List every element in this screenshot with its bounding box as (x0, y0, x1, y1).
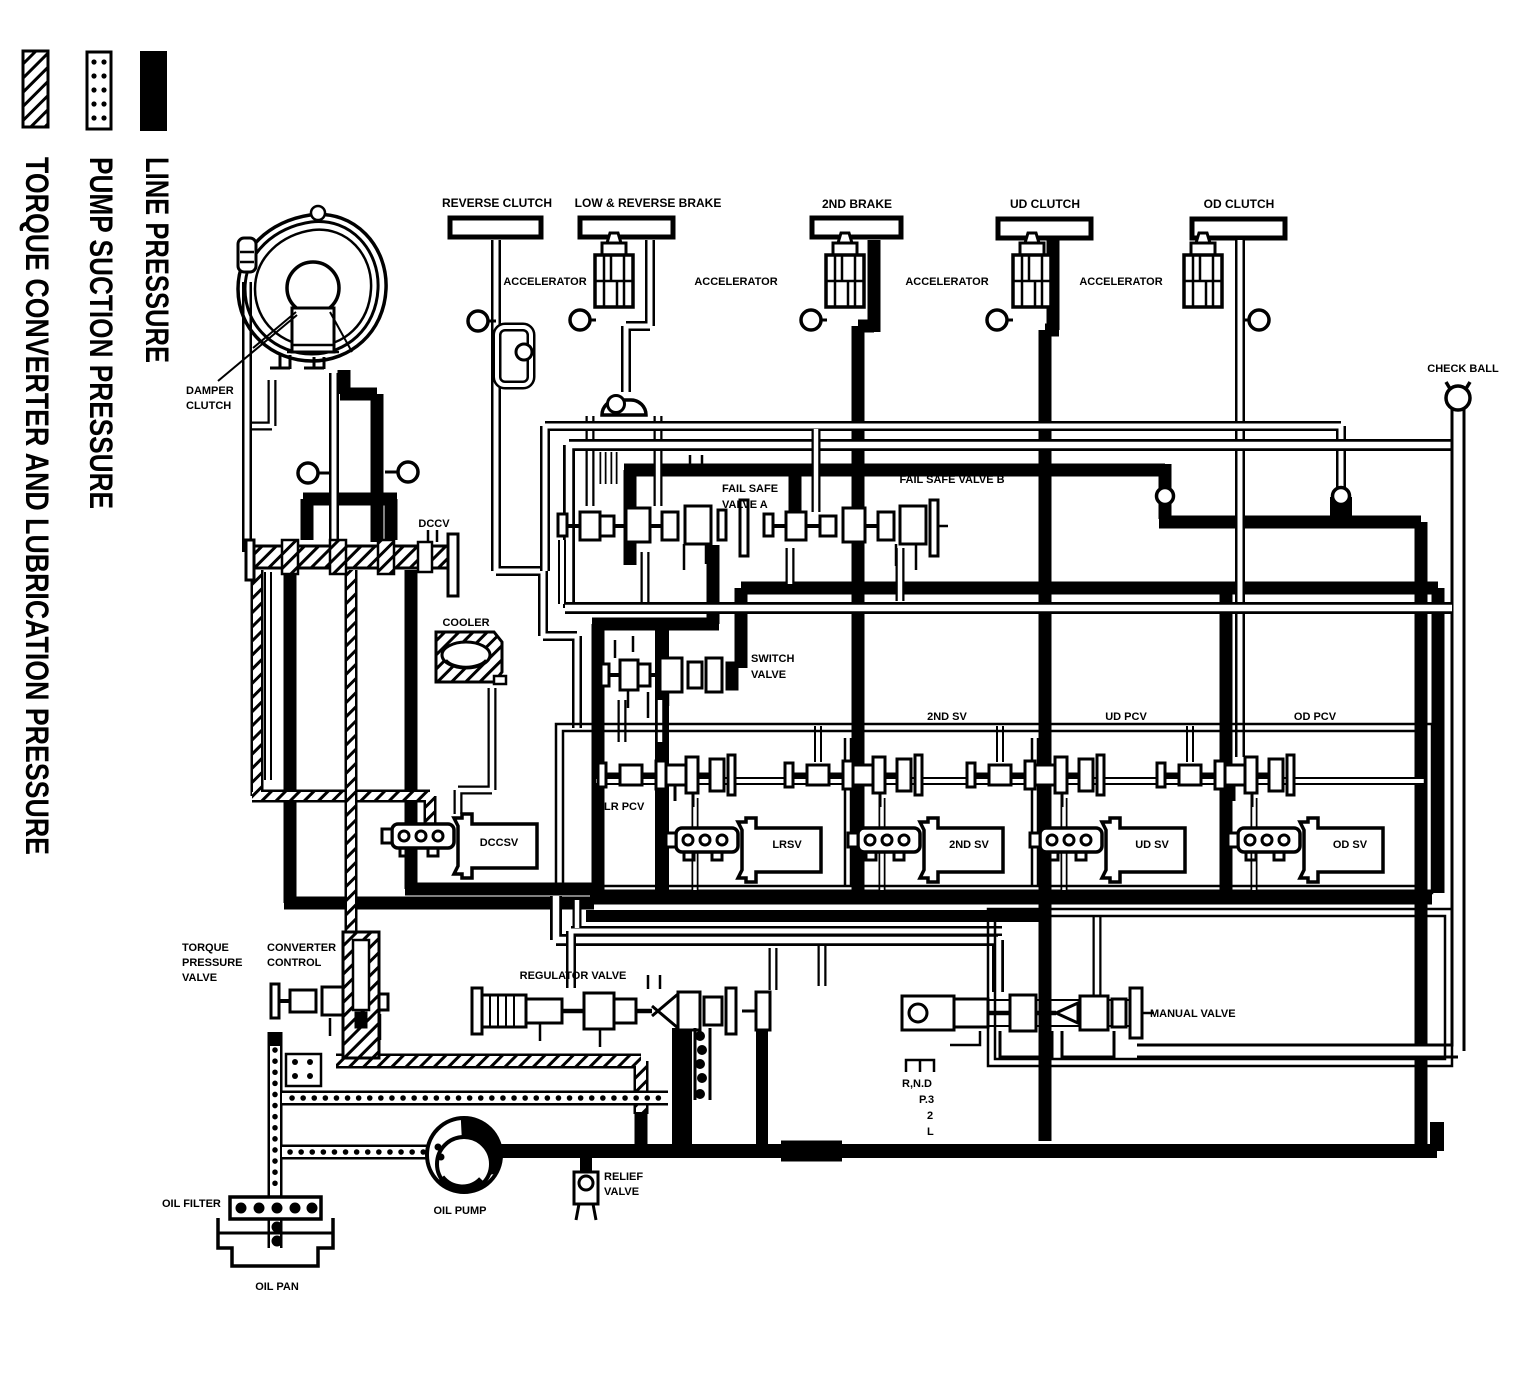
wire valveB port doubles (790, 548, 900, 601)
accumulator 2nd (826, 233, 864, 307)
clutch bar UD CLUTCH (998, 219, 1091, 238)
svg-text:LINE PRESSURE: LINE PRESSURE (139, 157, 175, 363)
solenoid LRSV (666, 818, 821, 882)
fail safe valve B spool (764, 500, 948, 570)
legend swatch: torque converter and lubrication pressure (hatched) (23, 51, 48, 127)
svg-text:ACCELERATOR: ACCELERATOR (1079, 276, 1162, 288)
svg-text:OD CLUTCH: OD CLUTCH (1204, 197, 1275, 211)
svg-text:UD PCV: UD PCV (1105, 711, 1147, 723)
svg-text:L: L (927, 1126, 934, 1138)
wire lr pcv vertical thick (655, 624, 669, 893)
accumulator stem circle od (right side) (1244, 310, 1269, 330)
svg-text:RELIEF: RELIEF (604, 1171, 643, 1183)
wire cooler loop hatched (252, 570, 430, 830)
LR PCV spool (598, 755, 735, 807)
oil pan (218, 1218, 333, 1266)
svg-text:DCCSV: DCCSV (480, 837, 519, 849)
wire regulator drain thick (756, 1002, 768, 1148)
wire bus1 y522 thick (1159, 522, 1421, 1146)
wire suction horizontal y1098 dotted (282, 1091, 668, 1106)
solenoid 2ND SV (848, 818, 1003, 882)
wire check ball line double (1137, 405, 1458, 1051)
wire lube main hatched vertical (345, 570, 358, 1060)
wire suction horizontal y1152 dotted (282, 1145, 432, 1160)
wire bottom bus thicker blob (781, 1141, 842, 1162)
suction vertical top cap (268, 1032, 283, 1046)
reverse line stem circle (468, 311, 496, 331)
wire cooler to DCCSV double (458, 688, 492, 814)
svg-text:OIL FILTER: OIL FILTER (162, 1198, 221, 1210)
solenoid DCCSV (382, 814, 537, 878)
legend swatch: line pressure (solid) (140, 51, 167, 131)
oil filter (230, 1197, 321, 1246)
wire lower double y946 (556, 896, 998, 992)
svg-text:OD SV: OD SV (1333, 839, 1368, 851)
legend swatch: pump suction pressure (dotted) (87, 52, 111, 129)
svg-text:VALVE: VALVE (182, 972, 217, 984)
torque pressure valve spool (271, 983, 388, 1040)
regulator suction block (695, 1028, 710, 1100)
svg-text:UD CLUTCH: UD CLUTCH (1010, 197, 1080, 211)
svg-text:CONTROL: CONTROL (267, 957, 322, 969)
wire converter left pipe double (242, 282, 252, 552)
torque converter outer shell (238, 206, 386, 369)
accumulator od (1184, 233, 1222, 307)
wire mid pipe y605 double (565, 602, 1452, 614)
wire regulator top riser double (818, 946, 827, 986)
check ball top right (1446, 382, 1470, 410)
wire converter outlet thick (303, 370, 397, 542)
converter left capsule (238, 238, 256, 272)
clutch bar 2ND BRAKE (812, 218, 901, 237)
svg-text:LRSV: LRSV (772, 839, 802, 851)
svg-text:PUMP SUCTION PRESSURE: PUMP SUCTION PRESSURE (83, 157, 119, 509)
svg-text:LOW & REVERSE BRAKE: LOW & REVERSE BRAKE (575, 196, 722, 210)
svg-text:TORQUE CONVERTER AND LUBRICATI: TORQUE CONVERTER AND LUBRICATION PRESSUR… (19, 157, 55, 855)
wire converter to DCCV double (329, 373, 339, 540)
converter piston body (292, 308, 334, 352)
wire pcv mid rail double (596, 777, 1425, 785)
wire DCCV left drop thick (284, 570, 594, 903)
converter bottom fittings (280, 355, 324, 369)
wire pipeB bundle double (569, 445, 1457, 608)
svg-text:ACCELERATOR: ACCELERATOR (503, 276, 586, 288)
wire pipeA bundle double (545, 426, 1341, 571)
svg-text:OIL PAN: OIL PAN (255, 1281, 299, 1293)
svg-text:R,N.D: R,N.D (902, 1078, 932, 1090)
wire od pcv vertical thick (1220, 592, 1233, 893)
wire low&rev under-bump pipes double (590, 416, 658, 506)
manual valve box (988, 909, 1452, 1066)
svg-text:VALVE: VALVE (751, 669, 786, 681)
svg-text:LR PCV: LR PCV (604, 801, 645, 813)
ball on bus at x1341 (1330, 488, 1352, 520)
wire main cross line y465 thick (624, 464, 1165, 565)
converter inner ball (287, 262, 339, 314)
svg-text:MANUAL VALVE: MANUAL VALVE (1150, 1008, 1236, 1020)
svg-text:DAMPER: DAMPER (186, 385, 234, 397)
cooler (436, 632, 506, 684)
svg-text:OIL PUMP: OIL PUMP (434, 1205, 487, 1217)
wire bottom solenoid bus thick (590, 890, 1432, 905)
svg-text:UD SV: UD SV (1135, 839, 1169, 851)
svg-text:2ND SV: 2ND SV (927, 711, 967, 723)
reverse bypass loop (497, 327, 532, 385)
regulator valve (472, 975, 770, 1047)
svg-text:CLUTCH: CLUTCH (186, 400, 231, 412)
wire valveA bottom port double (641, 552, 650, 604)
solenoid boxes outer frame (556, 724, 1432, 893)
vent circle left of converter drop (298, 463, 330, 483)
svg-text:2ND SV: 2ND SV (949, 839, 989, 851)
DCCV valve (246, 530, 458, 596)
wire pcv riser doubles (818, 726, 1190, 762)
svg-text:VALVE: VALVE (604, 1186, 639, 1198)
wire switch valve drops double (622, 700, 660, 742)
svg-text:COOLER: COOLER (442, 617, 489, 629)
wire low&rev line double (626, 240, 650, 392)
wire od clutch line double (1235, 240, 1245, 757)
svg-text:REVERSE CLUTCH: REVERSE CLUTCH (442, 196, 552, 210)
wire ud clutch line thick (1045, 240, 1059, 1141)
svg-text:CONVERTER: CONVERTER (267, 942, 336, 954)
converter top nub (311, 206, 325, 220)
wire 2nd brake line thick (858, 240, 874, 897)
regulator drain column black (672, 1028, 692, 1148)
relief valve (574, 1155, 598, 1220)
wire valveB top feed double (812, 429, 821, 512)
wire converter bottom-left double L (252, 380, 272, 426)
wire valveA left drain double (558, 540, 566, 604)
OD PCV spool (1157, 755, 1294, 807)
vent circle right of converter drop (385, 462, 418, 482)
wire bus2 y588 thick (741, 588, 1438, 893)
svg-text:REGULATOR VALVE: REGULATOR VALVE (520, 970, 627, 982)
clutch bar OD CLUTCH (1192, 219, 1285, 238)
svg-text:2ND BRAKE: 2ND BRAKE (822, 197, 892, 211)
oil pump (427, 1118, 501, 1192)
svg-text:ACCELERATOR: ACCELERATOR (905, 276, 988, 288)
wire suction vertical to filter dotted (268, 1044, 283, 1248)
dotted junction block (286, 1054, 321, 1086)
wire 2nd vertical to valveB thick (789, 465, 802, 516)
accumulator stem circle ud (987, 310, 1013, 330)
clutch bar LOW & REVERSE BRAKE (580, 218, 673, 237)
wire bus y916 thick (586, 910, 1045, 922)
solenoid OD SV (1228, 818, 1383, 882)
svg-text:FAIL SAFE: FAIL SAFE (722, 483, 778, 495)
wire valveA top stubs double (603, 452, 614, 484)
wire suction-feed hatched horizontal (336, 1061, 641, 1114)
accumulator ud (1013, 233, 1051, 307)
wire manual valve riser double (1093, 916, 1102, 995)
gear selector glyph (906, 1060, 934, 1072)
svg-text:SWITCH: SWITCH (751, 653, 794, 665)
accumulator stem circle 2nd (801, 310, 827, 330)
wire lower double y931 (571, 931, 1002, 988)
accumulator low&rev (595, 233, 633, 307)
svg-text:ACCELERATOR: ACCELERATOR (694, 276, 777, 288)
svg-text:P.3: P.3 (919, 1094, 934, 1106)
svg-text:DCCV: DCCV (418, 518, 450, 530)
UD PCV spool (967, 755, 1104, 807)
manual valve spool (902, 988, 1154, 1057)
switch valve spool (601, 636, 738, 718)
wire left riser x577 (573, 900, 582, 928)
leader line damper clutch (218, 315, 297, 381)
solenoid UD SV (1030, 818, 1185, 882)
wire pcv cell drains double (695, 798, 1254, 890)
accumulator stem circle low&rev (570, 310, 596, 330)
wire reverse clutch line double (496, 240, 577, 728)
svg-text:CHECK BALL: CHECK BALL (1427, 363, 1499, 375)
svg-text:FAIL SAFE VALVE B: FAIL SAFE VALVE B (899, 474, 1004, 486)
fail safe valve A spool (558, 455, 748, 570)
wire lower double drop x773 (769, 948, 778, 990)
svg-text:TORQUE: TORQUE (182, 942, 229, 954)
svg-text:VALVE A: VALVE A (722, 499, 768, 511)
clutch bar REVERSE CLUTCH (450, 218, 541, 237)
svg-text:PRESSURE: PRESSURE (182, 957, 243, 969)
low&rev bump (2 balls) (602, 396, 646, 416)
wire dccv left inner pipe double (264, 572, 272, 780)
svg-text:OD PCV: OD PCV (1294, 711, 1337, 723)
wire valveA drain thick (592, 545, 719, 893)
converter control hatched column (343, 932, 379, 1058)
2ND PCV spool (785, 755, 922, 807)
svg-text:2: 2 (927, 1110, 933, 1122)
wire bottom main bus thick (496, 1122, 1437, 1151)
wire DCCV right drop thick to DCCSV bus (405, 570, 594, 889)
ball on bus at x1165 (1157, 488, 1174, 505)
